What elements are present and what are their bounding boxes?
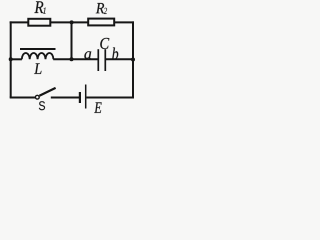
wire: inductor to node N2 bbox=[53, 58, 71, 60]
junction dot: node N2 bbox=[70, 57, 74, 61]
label C bbox=[100, 38, 109, 49]
wire: node N1 to R2 bbox=[72, 21, 89, 23]
wire: top rail, corner to R1 bbox=[10, 21, 29, 23]
wire: left junction to inductor bbox=[11, 58, 22, 60]
label L bbox=[34, 63, 41, 74]
resistor R2 body bbox=[88, 19, 114, 26]
wire: switch to battery bbox=[51, 97, 79, 99]
label R of R1 bbox=[34, 1, 43, 13]
junction dot: left rail bbox=[9, 57, 13, 61]
node N1 junction dot bbox=[70, 20, 74, 24]
inductor core bar bbox=[20, 48, 56, 50]
wire: bottom-left corner to switch bbox=[10, 97, 36, 99]
inductor L coil bbox=[22, 53, 54, 59]
wire: middle vertical from node N1 to node N2 bbox=[71, 22, 73, 59]
switch S blade bbox=[39, 88, 55, 96]
capacitor C right plate bbox=[104, 49, 106, 71]
battery E short plate bbox=[79, 92, 81, 103]
battery E long plate bbox=[85, 85, 87, 109]
wire: node N2 to capacitor left plate bbox=[72, 58, 98, 60]
wire: left branch vertical bbox=[10, 21, 12, 97]
capacitor C left plate bbox=[97, 49, 99, 71]
background paper bbox=[0, 0, 137, 118]
wire: capacitor right plate to right junction bbox=[106, 58, 133, 60]
label subscript 2 of R2 bbox=[104, 8, 107, 14]
wire: right branch vertical bbox=[132, 21, 134, 98]
label E bbox=[94, 102, 101, 113]
label R of R2 bbox=[96, 3, 104, 13]
label subscript 1 of R1 bbox=[43, 7, 46, 13]
wire: battery to bottom-right corner bbox=[87, 97, 135, 99]
resistor R1 body bbox=[28, 19, 50, 26]
junction dot: right rail bbox=[131, 58, 135, 62]
wire: R1 to node N1 bbox=[50, 21, 72, 23]
node label b bbox=[112, 47, 118, 59]
node label a bbox=[84, 51, 91, 59]
wire: R2 to top-right corner bbox=[114, 21, 134, 23]
switch S pivot circle bbox=[35, 95, 39, 99]
label S bbox=[39, 101, 45, 110]
